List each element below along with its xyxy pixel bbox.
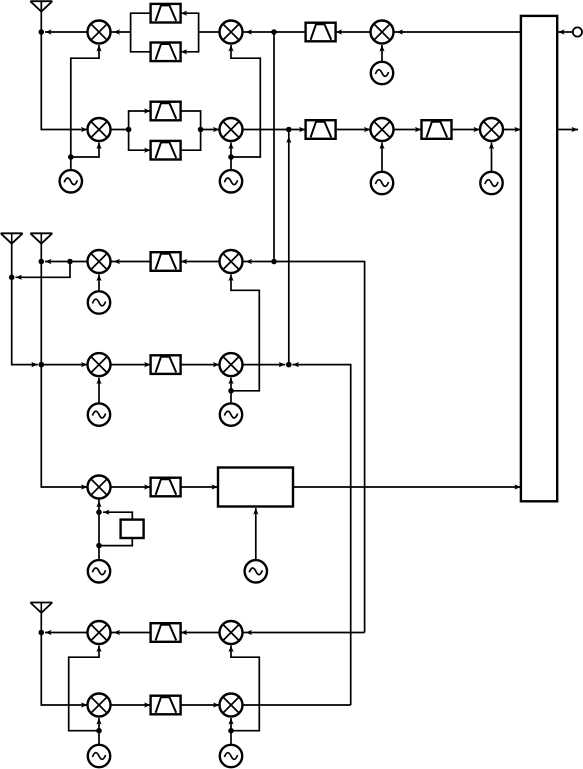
- mixer U17: [220, 694, 243, 717]
- wire: row4 mixer U12 to RX merge node: [243, 362, 286, 367]
- mixer U7: [371, 118, 394, 141]
- oscillator G12: [220, 745, 242, 767]
- wire: row2 mixer U8 to baseband block: [503, 127, 521, 132]
- wire: row2 split to upper filter FL4: [129, 108, 151, 129]
- wire: row1 split to upper filter FL1: [131, 13, 151, 32]
- mixer U9: [88, 250, 111, 273]
- wire: row5 filter FL10 to demodulator block: [181, 484, 218, 489]
- bandpass filter FL5: [151, 141, 181, 160]
- wire: oscillator G7 to mixer U12: [228, 378, 233, 404]
- wire: row1 upper filter FL1 input from join node: [181, 11, 199, 32]
- wire: row1 mixer U1 output to antenna A1 node: [45, 29, 88, 34]
- wire: antenna A1 feeder: [40, 1, 42, 32]
- wire: row3 line to corner down to row6: [243, 259, 365, 633]
- node: antenna A1 junction: [39, 29, 45, 35]
- bandpass filter FL2: [151, 43, 181, 62]
- wire: oscillator G5 to mixer U8: [489, 143, 494, 172]
- wire: crystal branch lower: [99, 538, 132, 546]
- oscillator G8: [88, 403, 110, 425]
- wire: antenna A4 feeder down to row7: [41, 613, 87, 708]
- wire: oscillator G10 to demodulator block: [253, 508, 258, 560]
- wire: oscillator G12 to mixer U17: [228, 718, 233, 745]
- wire: row3 filter FL8 to mixer U9: [111, 259, 151, 264]
- wire: row1 filter FL3 output to mixer U2: [243, 29, 306, 34]
- bandpass filter FL8: [151, 252, 181, 271]
- wire: row5 mixer U13 to filter FL10: [111, 484, 151, 489]
- wire: LO branch to row6 mixer U14: [69, 646, 102, 731]
- mixer U2: [220, 21, 243, 44]
- oscillator G7: [220, 403, 242, 425]
- wire: oscillator G6 to mixer U9: [96, 275, 101, 292]
- oscillator G10: [245, 560, 267, 582]
- wire: row6 filter FL11 to mixer U14: [111, 630, 151, 635]
- wire: LO branch up to row1 mixer U1: [71, 45, 102, 157]
- wire: row1 filter pair output to mixer U1: [111, 29, 131, 34]
- bandpass filter FL7: [422, 120, 452, 139]
- antenna A1: [30, 1, 52, 11]
- antenna A2: [1, 233, 23, 243]
- mixer U8: [480, 118, 503, 141]
- wire: row1 lower filter FL2 input from join node: [181, 32, 199, 54]
- wire: oscillator G4 to mixer U7: [379, 143, 384, 172]
- wire: row3 mixer U10 to filter FL8: [181, 259, 220, 264]
- wire: row4 mixer U11 to filter FL9: [111, 362, 151, 367]
- oscillator G9: [88, 560, 110, 582]
- wire: row7 filter FL12 to mixer U17: [181, 702, 220, 707]
- wire: row1 node down to row3 mixer U10: [273, 32, 275, 262]
- wire: baseband block output right: [557, 127, 578, 132]
- wire: row2 lower filter FL5 to join node: [181, 130, 201, 151]
- oscillator G1: [60, 170, 82, 192]
- wire: row6 mixer U14 output to antenna A4: [45, 630, 88, 635]
- bandpass filter FL11: [151, 623, 181, 642]
- node: row3 output split: [67, 259, 73, 265]
- node: antenna A2 tap: [9, 275, 15, 281]
- node: row2 filter join: [198, 127, 204, 133]
- wire: row3 output branch to antenna A2 feeder: [16, 262, 71, 280]
- antenna A4: [30, 603, 52, 613]
- antenna A3: [30, 233, 52, 243]
- mixer U15: [220, 621, 243, 644]
- wire: row4 filter FL9 to mixer U12: [181, 362, 220, 367]
- oscillator G5: [480, 172, 502, 194]
- bandpass filter FL6: [306, 120, 336, 139]
- wire: LO branch to row3 mixer U10: [228, 275, 259, 391]
- wire: row4 antenna node to mixer U11: [41, 362, 87, 367]
- node: LO G2 junction: [228, 154, 234, 160]
- wire: LO branch to row2 mixer U5: [71, 143, 102, 158]
- wire: row3 output to antenna A3 feeder: [45, 259, 70, 264]
- wire: oscillator G11 to mixer U16: [96, 718, 101, 745]
- oscillator G3: [371, 62, 393, 84]
- node: crystal branch top: [96, 509, 102, 515]
- wire: row2 join node to mixer U6: [201, 127, 220, 132]
- wire: row2 filter FL6 to mixer U7: [336, 127, 371, 132]
- node: antenna A4 row6 tap: [39, 630, 45, 636]
- crystal X1: [121, 520, 144, 538]
- wire: row2 mixer U6 to IF node: [243, 129, 289, 131]
- wire: row2 filter FL7 to mixer U8: [452, 127, 481, 132]
- mixer U6: [220, 118, 243, 141]
- oscillator G6: [88, 291, 110, 313]
- wire: row1 baseband block output to mixer U3: [394, 29, 521, 34]
- wire: LO branch to row6 mixer U15: [228, 646, 259, 731]
- mixer U11: [88, 353, 111, 376]
- wire: RX merge node up to row2: [286, 130, 291, 365]
- oscillator G11: [88, 745, 110, 767]
- wire: row3 mixer U9 output to antenna node: [70, 261, 88, 263]
- bandpass filter FL3: [306, 23, 336, 42]
- oscillator G4: [371, 172, 393, 194]
- wire: oscillator G1 to node: [70, 157, 72, 170]
- wire: antenna A3 feeder down to row5: [41, 244, 87, 490]
- wire: oscillator G3 to mixer U3: [379, 45, 384, 62]
- wire: LO branch up to row1 mixer U2: [228, 45, 260, 157]
- wire: demodulator block to baseband block: [293, 484, 521, 489]
- wire: row6 line from row3 corner to mixer U15: [243, 630, 365, 635]
- bandpass filter FL10: [151, 478, 181, 497]
- input terminal: [573, 27, 582, 36]
- node: antenna A3 row4 tap: [39, 362, 45, 368]
- wire: row2 upper filter FL4 to join node: [181, 111, 201, 130]
- node: row1 TX tap: [271, 29, 277, 35]
- mixer U16: [88, 694, 111, 717]
- node: row2 filter split: [126, 127, 132, 133]
- wire: row7 return line up into RX merge node: [292, 362, 350, 705]
- wire: row1 mixer U2 output to filter join node: [199, 31, 220, 33]
- wire: antenna A1 node down to row2 mixer U5: [41, 32, 87, 132]
- wire: oscillator G8 to mixer U11: [96, 378, 101, 404]
- wire: oscillator G2 to node: [230, 157, 232, 170]
- node: crystal branch bottom: [96, 543, 102, 549]
- node: RX merge: [286, 362, 292, 368]
- mixer U5: [88, 118, 111, 141]
- wire: input terminal to baseband block: [557, 29, 573, 34]
- node: LO G11 junction: [96, 728, 102, 734]
- demodulator block: [218, 468, 293, 507]
- wire: row2 mixer U5 to split node: [111, 129, 129, 131]
- node: row3 tap: [271, 259, 277, 265]
- node: LO G1 junction: [68, 154, 74, 160]
- mixer U12: [220, 353, 243, 376]
- bandpass filter FL1: [151, 4, 181, 23]
- wire: antenna A2 feeder down to row4: [12, 244, 38, 368]
- wire: row6 mixer U15 to filter FL11: [181, 630, 220, 635]
- wire: row2 mixer U7 to filter FL7: [394, 127, 422, 132]
- mixer U1: [88, 21, 111, 44]
- mixer U14: [88, 621, 111, 644]
- wire: row7 mixer U16 to filter FL12: [111, 702, 151, 707]
- baseband processor block: [521, 16, 557, 501]
- bandpass filter FL9: [151, 355, 181, 374]
- wire: row2 IF node to filter FL6: [289, 127, 306, 132]
- wire: LO branch to row2 mixer U6: [228, 143, 233, 158]
- wire: row2 split to lower filter FL5: [129, 130, 151, 153]
- node: row2 IF junction: [286, 127, 292, 133]
- oscillator G2: [220, 170, 242, 192]
- mixer U10: [220, 250, 243, 273]
- wire: row1 mixer U3 output to filter FL3: [336, 29, 371, 34]
- wire: row7 mixer U17 output right: [243, 704, 351, 706]
- wire: row1 split to lower filter FL2: [131, 32, 151, 52]
- mixer U3: [371, 21, 394, 44]
- bandpass filter FL4: [151, 102, 181, 121]
- node: antenna A3 row3 tap: [39, 259, 45, 265]
- node: LO G12 junction: [228, 728, 234, 734]
- wire: oscillator G9 up to mixer U13: [96, 499, 101, 561]
- node: LO G7 junction: [228, 388, 234, 394]
- mixer U13: [88, 476, 111, 499]
- wire: crystal branch upper: [103, 510, 132, 520]
- bandpass filter FL12: [151, 696, 181, 715]
